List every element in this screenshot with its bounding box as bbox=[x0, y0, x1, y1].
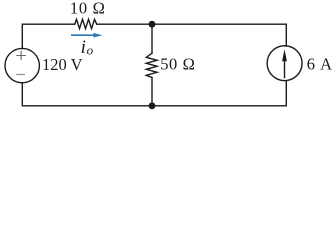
svg-text:50 Ω: 50 Ω bbox=[160, 55, 195, 74]
wire bottom U (voltage source bottom, bottom rail, to current source bottom) bbox=[22, 81, 286, 106]
svg-text:120 V: 120 V bbox=[42, 55, 83, 74]
wire middle vertical bottom (50-ohm resistor to bottom node) bbox=[151, 78, 153, 106]
node B bottom junction dot bbox=[149, 102, 156, 109]
svg-text:io: io bbox=[81, 37, 94, 58]
wire top-left L (from voltage source top to 10-ohm resistor) bbox=[22, 24, 74, 48]
wire middle vertical top (top node to 50-ohm resistor) bbox=[151, 24, 153, 53]
current source I1 circle bbox=[267, 46, 302, 81]
svg-text:10 Ω: 10 Ω bbox=[70, 0, 106, 17]
resistor R2 50 ohm zigzag bbox=[146, 53, 157, 77]
minus sign of voltage source bbox=[16, 74, 25, 76]
current arrow i_o (blue) bbox=[71, 33, 103, 38]
plus sign of voltage source bbox=[16, 51, 26, 61]
resistor R1 10 ohm zigzag bbox=[75, 19, 97, 28]
voltage source V1 circle bbox=[5, 48, 39, 82]
node A top junction dot bbox=[149, 21, 156, 28]
wire top (resistor to top-right corner, down to current source) bbox=[97, 24, 287, 46]
svg-text:6 A: 6 A bbox=[307, 54, 333, 73]
current source I1 arrow bbox=[282, 49, 287, 78]
